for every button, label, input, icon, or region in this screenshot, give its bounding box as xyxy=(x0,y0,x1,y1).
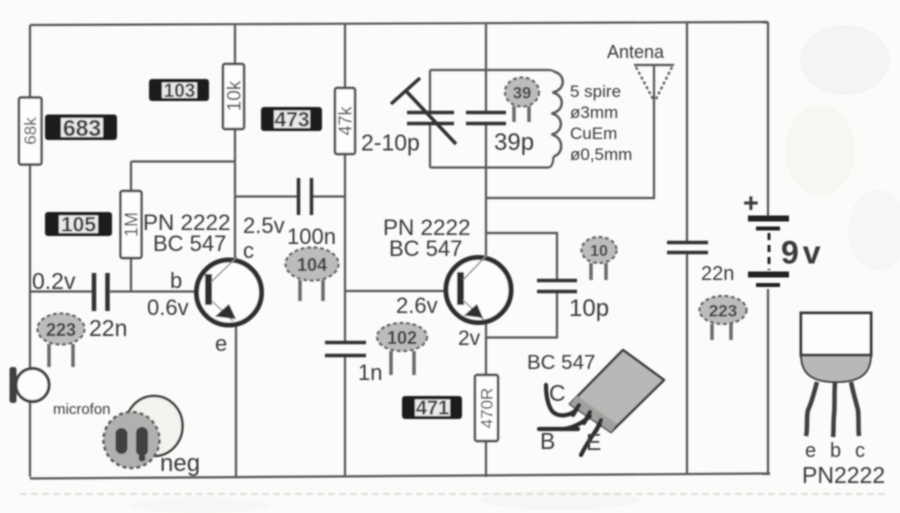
svg-text:E: E xyxy=(586,429,601,455)
svg-text:BC 547: BC 547 xyxy=(153,231,226,256)
svg-text:22n: 22n xyxy=(701,263,734,285)
svg-text:ø0,5mm: ø0,5mm xyxy=(570,145,632,164)
svg-text:microfon: microfon xyxy=(53,401,111,418)
svg-text:2v: 2v xyxy=(458,327,481,350)
svg-text:47k: 47k xyxy=(336,105,356,135)
svg-text:2-10p: 2-10p xyxy=(361,130,420,156)
svg-text:223: 223 xyxy=(46,320,76,340)
svg-text:105: 105 xyxy=(61,214,96,237)
svg-text:neg: neg xyxy=(160,450,200,477)
svg-text:683: 683 xyxy=(63,115,101,141)
svg-text:PN2222: PN2222 xyxy=(802,462,885,488)
svg-text:1M: 1M xyxy=(122,212,142,237)
svg-text:10p: 10p xyxy=(569,295,609,322)
svg-text:5 spire: 5 spire xyxy=(570,82,621,101)
svg-text:b: b xyxy=(170,268,182,293)
svg-text:BC 547: BC 547 xyxy=(527,351,595,374)
svg-text:10: 10 xyxy=(590,243,608,260)
svg-text:2.6v: 2.6v xyxy=(396,293,438,318)
svg-text:10k: 10k xyxy=(225,80,246,111)
svg-text:c: c xyxy=(243,238,254,263)
svg-text:C: C xyxy=(549,380,566,406)
svg-text:39: 39 xyxy=(513,85,531,103)
svg-text:b: b xyxy=(830,440,841,462)
svg-text:0.2v: 0.2v xyxy=(32,268,76,294)
svg-text:ø3mm: ø3mm xyxy=(570,103,618,122)
svg-text:100n: 100n xyxy=(287,224,336,249)
svg-text:CuEm: CuEm xyxy=(570,124,617,143)
svg-text:+: + xyxy=(743,188,759,218)
svg-text:102: 102 xyxy=(387,328,417,348)
svg-text:BC 547: BC 547 xyxy=(389,236,462,261)
svg-text:e: e xyxy=(215,331,227,356)
svg-text:B: B xyxy=(540,428,555,454)
svg-text:e: e xyxy=(805,440,816,462)
svg-text:471: 471 xyxy=(416,398,449,420)
svg-text:22n: 22n xyxy=(89,315,127,341)
svg-text:68k: 68k xyxy=(21,117,40,145)
svg-text:c: c xyxy=(855,440,865,462)
svg-text:0.6v: 0.6v xyxy=(147,295,189,320)
svg-text:2.5v: 2.5v xyxy=(243,213,285,238)
svg-text:104: 104 xyxy=(297,255,327,275)
svg-text:470R: 470R xyxy=(478,388,497,429)
svg-text:223: 223 xyxy=(709,302,737,321)
svg-text:1n: 1n xyxy=(358,360,382,385)
svg-text:Antena: Antena xyxy=(607,42,665,62)
svg-text:9v: 9v xyxy=(781,235,825,271)
svg-text:473: 473 xyxy=(274,109,309,132)
svg-text:39p: 39p xyxy=(494,129,534,156)
svg-text:103: 103 xyxy=(164,81,196,102)
